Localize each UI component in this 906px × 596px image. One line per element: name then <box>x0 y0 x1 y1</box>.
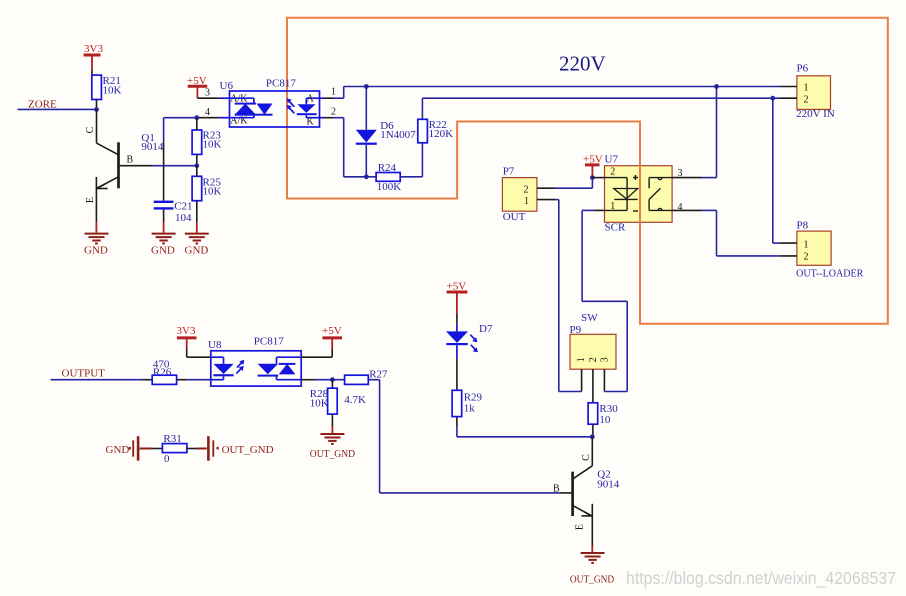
svg-text:1: 1 <box>524 196 529 207</box>
svg-text:10K: 10K <box>103 85 122 97</box>
resistor R24 100K <box>366 162 422 193</box>
transistor Q2 9014 <box>553 437 620 553</box>
node R23/R25/base <box>194 163 199 168</box>
svg-text:3V3: 3V3 <box>84 43 103 55</box>
power +5V (D7) <box>447 281 468 324</box>
ground OUT_GND (Q2) <box>570 553 614 585</box>
svg-text:0: 0 <box>164 453 170 465</box>
wire Q1 base <box>119 165 197 167</box>
wire P7 pin2 to +5V node <box>555 178 605 189</box>
svg-text:10K: 10K <box>310 398 329 410</box>
ground GND (Q1 emitter) <box>84 234 109 257</box>
wire U8 out to node <box>301 379 344 381</box>
svg-text:1: 1 <box>804 83 809 94</box>
wire R29 to node <box>457 426 592 437</box>
connector P9 (SW) <box>570 334 616 403</box>
resistor R26 470 <box>152 358 211 384</box>
svg-text:A: A <box>307 94 315 105</box>
svg-text:GND: GND <box>106 444 130 456</box>
svg-text:E: E <box>575 524 586 530</box>
svg-text:1: 1 <box>331 87 336 98</box>
svg-text:GND: GND <box>84 245 108 257</box>
svg-text:2: 2 <box>610 167 615 178</box>
svg-text:C: C <box>581 454 592 461</box>
wire U7 pin4 to P8 pin2 <box>672 210 780 256</box>
svg-text:R27: R27 <box>369 368 388 380</box>
wire ZORE <box>18 108 97 110</box>
resistor R22 120K <box>418 98 453 177</box>
resistor R25 <box>192 166 221 233</box>
LED D7 <box>446 323 493 358</box>
power +5V (U8) <box>301 325 342 357</box>
svg-text:10: 10 <box>599 414 611 426</box>
wire U6 pin3 <box>197 97 229 99</box>
svg-text:OUTPUT: OUTPUT <box>62 368 106 380</box>
svg-text:R24: R24 <box>378 162 397 174</box>
svg-text:1: 1 <box>804 239 809 250</box>
node +5V/P7/U7 pin2 <box>590 175 595 180</box>
svg-text:C: C <box>85 126 96 133</box>
svg-text:OUT: OUT <box>503 211 526 223</box>
svg-text:2: 2 <box>804 252 809 263</box>
svg-text:E: E <box>85 197 96 203</box>
svg-text:2: 2 <box>524 184 529 195</box>
wire 220V second rail <box>422 97 780 99</box>
svg-text:U7: U7 <box>605 154 619 166</box>
power +5V (U6 pin3) <box>187 75 207 98</box>
opto-triac U7 SCR <box>605 164 673 224</box>
svg-text:B: B <box>553 484 560 495</box>
svg-text:4.7K: 4.7K <box>344 394 366 406</box>
node Q2 collector <box>590 434 595 439</box>
wire rail down to P8 pin1 <box>773 98 780 243</box>
svg-text:B: B <box>127 155 134 166</box>
optocoupler U6 PC817 <box>220 78 320 128</box>
svg-text:K: K <box>307 117 315 128</box>
svg-text:2: 2 <box>804 94 809 105</box>
svg-text:GND: GND <box>185 245 209 257</box>
power 3V3 (top) <box>84 43 104 75</box>
svg-text:OUT_GND: OUT_GND <box>222 444 274 456</box>
wire 220V top rail <box>366 86 780 88</box>
wire U6 pin1 to top rail <box>320 87 367 99</box>
svg-text:3: 3 <box>599 357 610 362</box>
svg-text:1k: 1k <box>464 403 476 415</box>
svg-text:2: 2 <box>588 357 599 362</box>
wire U7 pin3 <box>672 177 716 179</box>
svg-text:C21: C21 <box>174 201 192 213</box>
resistor R31 0 <box>162 433 207 465</box>
net tie OUT_GND side <box>207 436 273 461</box>
power +5V (U7 pin2) <box>583 154 603 178</box>
svg-text:10K: 10K <box>203 139 222 151</box>
svg-text:220V: 220V <box>559 52 606 76</box>
resistor R28 10K <box>310 380 337 433</box>
resistor R29 1k <box>452 358 482 426</box>
resistor R23 <box>192 118 221 166</box>
svg-text:U6: U6 <box>220 80 234 92</box>
svg-text:9014: 9014 <box>141 141 164 153</box>
svg-text:P8: P8 <box>797 219 809 231</box>
node second rail to P8 <box>770 96 775 101</box>
node top rail to SCR pin3 <box>714 84 719 89</box>
node D6 top <box>364 84 369 89</box>
ground GND (R25) <box>185 234 209 257</box>
svg-text:PC817: PC817 <box>266 78 296 90</box>
net tie GND side <box>106 436 163 461</box>
optocoupler U8 PC817 <box>208 336 301 386</box>
power 3V3 (U8) <box>177 325 211 357</box>
svg-text:SCR: SCR <box>605 222 626 234</box>
capacitor C21 104 <box>154 201 193 233</box>
svg-text:PC817: PC817 <box>254 336 284 348</box>
node R28/R27 <box>330 377 335 382</box>
svg-text:OUT_GND: OUT_GND <box>310 448 355 460</box>
svg-text:1N4007: 1N4007 <box>380 129 416 141</box>
svg-text:U8: U8 <box>208 339 222 351</box>
svg-text:220V IN: 220V IN <box>796 108 835 120</box>
svg-text:100K: 100K <box>377 181 402 193</box>
wire pin4 net horizontal <box>164 117 230 119</box>
wire U6 pin2 down <box>320 118 367 177</box>
connector P7 OUT <box>502 165 555 223</box>
resistor R27 4.7K <box>344 368 388 405</box>
svg-text:P6: P6 <box>797 63 809 75</box>
wire rail down to SCR pin3 <box>716 87 718 178</box>
ground GND (C21) <box>151 234 176 257</box>
node pin4/R23 <box>194 115 199 120</box>
svg-text:OUT--LOADER: OUT--LOADER <box>796 267 864 279</box>
wire R27 to Q2 base <box>368 380 559 493</box>
svg-text:P7: P7 <box>503 165 515 177</box>
svg-text:2: 2 <box>331 107 336 118</box>
svg-text:104: 104 <box>175 212 192 224</box>
svg-text:10K: 10K <box>203 186 222 198</box>
svg-text:1: 1 <box>576 357 587 362</box>
node D6 bottom <box>364 174 369 179</box>
ground OUT_GND (R28) <box>310 434 355 460</box>
svg-text:GND: GND <box>151 245 175 257</box>
wire OUTPUT <box>51 379 153 381</box>
svg-text:9014: 9014 <box>597 479 620 491</box>
svg-text:OUT_GND: OUT_GND <box>570 573 614 585</box>
svg-text:4: 4 <box>205 107 210 118</box>
svg-text:3: 3 <box>205 88 210 99</box>
svg-text:D7: D7 <box>479 323 493 335</box>
connector P8 OUT--LOADER <box>780 219 864 279</box>
svg-text:3V3: 3V3 <box>177 325 196 337</box>
orange highlight boundary <box>287 18 888 324</box>
node at R21/Q1 collector <box>94 107 99 112</box>
transistor Q1 9014 <box>85 109 164 232</box>
wire C21 vertical <box>163 118 165 201</box>
wire P7 pin1 down to P9 pin1 <box>555 200 582 392</box>
connector P6 220V IN <box>780 63 835 121</box>
svg-text:SW: SW <box>581 312 598 324</box>
svg-text:https://blog.csdn.net/weixin_4: https://blog.csdn.net/weixin_42068537 <box>626 568 896 589</box>
svg-text:+5V: +5V <box>322 325 342 337</box>
diode D6 1N4007 <box>356 87 416 177</box>
resistor R21 <box>92 75 122 109</box>
wire U7 pin1 down to P9 pin3 <box>582 210 627 391</box>
resistor R30 10 <box>588 403 618 437</box>
svg-text:120K: 120K <box>429 128 454 140</box>
